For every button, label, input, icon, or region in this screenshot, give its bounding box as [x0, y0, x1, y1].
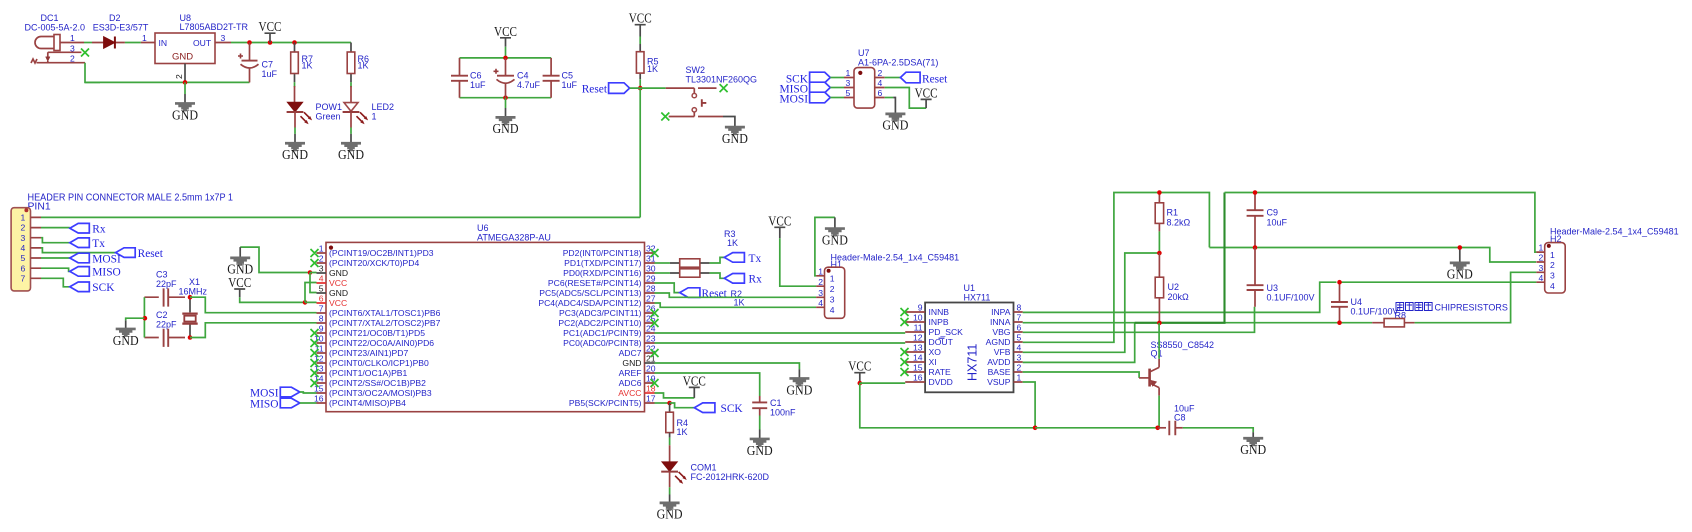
svg-text:100nF: 100nF	[770, 408, 796, 418]
svg-text:1: 1	[1017, 373, 1022, 383]
right pin names	[538, 248, 641, 408]
svg-text:PD2(INT0/PCINT18): PD2(INT0/PCINT18)	[563, 248, 642, 258]
svg-text:GND: GND	[786, 382, 812, 397]
svg-text:10uF: 10uF	[1267, 218, 1288, 228]
svg-text:X1: X1	[189, 277, 200, 287]
svg-text:1: 1	[372, 112, 377, 122]
wire U7.6 to GND	[885, 97, 894, 99]
svg-text:VCC: VCC	[848, 359, 871, 374]
wire MCU pin29 to Reset flag	[655, 283, 680, 293]
svg-text:20: 20	[646, 364, 656, 374]
wire R8 to H2.3	[1415, 272, 1537, 322]
wire U8 OUT to VCC rail	[231, 42, 351, 44]
junction X1 bottom	[188, 335, 193, 340]
svg-text:IN: IN	[159, 38, 168, 48]
power VCC (left of H1)	[768, 213, 791, 238]
connector H2 Header-Male-2.54_1x4_C59481	[1536, 227, 1678, 294]
wire MCU pin23 to U1.12	[655, 342, 906, 344]
svg-text:INNA: INNA	[990, 317, 1011, 327]
svg-text:3: 3	[221, 33, 226, 43]
svg-text:CHIPRESISTORS: CHIPRESISTORS	[1435, 303, 1508, 313]
wire U1.8 INPA to U4/H2.4	[1023, 282, 1337, 312]
wire cap top rail	[460, 57, 552, 59]
svg-text:GND: GND	[657, 507, 683, 522]
svg-text:8: 8	[1017, 303, 1022, 313]
svg-text:C2: C2	[156, 310, 168, 320]
wire U1.1 VSUP down to rail	[1023, 382, 1035, 428]
junction U4 bottom / INNA wire	[1337, 320, 1342, 325]
junction U4 top / INPA wire	[1337, 280, 1342, 285]
net label MOSI	[70, 253, 121, 265]
right pin numbers	[1017, 303, 1022, 383]
right pin numbers	[646, 244, 656, 404]
wire VCC rail to R6	[350, 42, 352, 44]
junction AGND/GND symbol	[1458, 245, 1463, 250]
svg-text:(PCINT20/XCK/T0)PD4: (PCINT20/XCK/T0)PD4	[329, 258, 419, 268]
wire MCU pin24 to U1.11	[655, 332, 906, 334]
junction C9 top	[1253, 190, 1258, 195]
net label Reset (PIN1.4)	[116, 248, 164, 260]
svg-text:16: 16	[314, 394, 324, 404]
svg-text:SW2: SW2	[686, 65, 706, 75]
left pin stubs normal	[317, 253, 327, 403]
ground GND (left of crystal)	[113, 320, 139, 347]
ground GND (below POW1)	[282, 134, 308, 162]
net label Reset (flag, at R5 node)	[582, 83, 630, 96]
svg-text:Rx: Rx	[749, 274, 763, 286]
svg-text:3: 3	[830, 295, 835, 305]
capacitor C2 22pF	[144, 310, 185, 347]
capacitor C6 1uF	[451, 58, 486, 98]
no-connect X marks MCU left pins 1,2,9,10,11,12,13,14	[311, 249, 319, 387]
ground GND (right of C8)	[1240, 437, 1266, 457]
junction MCU VCC pins wire	[303, 300, 308, 305]
MCU U6 ATMEGA328P-AU	[314, 223, 656, 412]
net label Tx	[724, 253, 761, 265]
svg-text:0.1UF/100V: 0.1UF/100V	[1267, 293, 1315, 303]
svg-text:2: 2	[1539, 253, 1544, 263]
svg-text:2: 2	[319, 254, 324, 264]
svg-text:VCC: VCC	[494, 24, 517, 39]
net label SCK (MCU pin17)	[694, 403, 743, 415]
svg-text:C5: C5	[562, 71, 574, 81]
svg-text:2: 2	[21, 223, 26, 233]
svg-text:Header-Male-2.54_1x4_C59481: Header-Male-2.54_1x4_C59481	[831, 253, 960, 263]
svg-text:6: 6	[21, 263, 26, 273]
wire COM1 to GND	[669, 487, 671, 494]
svg-text:29: 29	[646, 274, 656, 284]
svg-text:(PCINT6/XTAL1/TOSC1)PB6: (PCINT6/XTAL1/TOSC1)PB6	[329, 308, 441, 318]
wire U4 top to H2.4	[1340, 281, 1537, 283]
svg-text:MOSI: MOSI	[92, 253, 121, 265]
svg-text:U7: U7	[858, 48, 870, 58]
wire VCC to U1.16 DVDD	[860, 382, 905, 384]
svg-text:PB5(SCK/PCINT5): PB5(SCK/PCINT5)	[569, 398, 642, 408]
svg-text:2: 2	[818, 277, 823, 287]
svg-text:3: 3	[1017, 353, 1022, 363]
svg-text:VFB: VFB	[994, 347, 1011, 357]
svg-text:9: 9	[319, 324, 324, 334]
wire AVDD overlap (dark) to E+ riser	[1135, 192, 1225, 322]
svg-text:COM1: COM1	[691, 463, 717, 473]
svg-text:U6: U6	[477, 223, 489, 233]
connector DC1 DC-005-5A-2.0 (DC barrel jack)	[25, 13, 86, 64]
svg-text:RATE: RATE	[929, 367, 952, 377]
svg-text:24: 24	[646, 324, 656, 334]
svg-text:18: 18	[646, 384, 656, 394]
wire C8 to GND	[1183, 428, 1253, 432]
wire DC1.2 down to GND rail	[85, 63, 100, 83]
wire E+ top rail to H2.1	[1225, 193, 1537, 253]
capacitor C9 10uF	[1247, 193, 1288, 248]
svg-text:5: 5	[846, 88, 851, 98]
wire D2 to U8 IN	[125, 42, 141, 44]
svg-text:1K: 1K	[647, 64, 658, 74]
svg-text:U2: U2	[1168, 282, 1180, 292]
svg-text:3: 3	[818, 288, 823, 298]
svg-text:22pF: 22pF	[156, 279, 177, 289]
resistor R5 1K	[636, 44, 658, 79]
svg-text:7: 7	[319, 304, 324, 314]
wire junction to SCK flag	[670, 403, 695, 408]
svg-text:(PCINT21/OC0B/T1)PD5: (PCINT21/OC0B/T1)PD5	[329, 328, 425, 338]
left pin numbers	[314, 244, 324, 404]
svg-text:C6: C6	[470, 71, 482, 81]
svg-text:LED2: LED2	[372, 102, 395, 112]
svg-text:15: 15	[913, 363, 923, 373]
svg-text:AVDD: AVDD	[987, 357, 1010, 367]
svg-text:2: 2	[830, 284, 835, 294]
svg-text:VCC: VCC	[629, 11, 652, 26]
wire R5 to Reset node	[639, 79, 641, 88]
wire U8 pin2 to GND symbol	[184, 82, 186, 94]
svg-text:GND: GND	[1447, 267, 1473, 282]
svg-text:GND: GND	[722, 131, 748, 146]
power VCC (right of U7)	[915, 85, 938, 108]
svg-text:HEADER PIN CONNECTOR MALE 2.5m: HEADER PIN CONNECTOR MALE 2.5mm 1x7P 1	[28, 193, 234, 204]
svg-text:13: 13	[913, 343, 923, 353]
ground GND (below U8)	[172, 94, 198, 122]
wire C4 bottom to GND	[505, 98, 507, 108]
svg-text:6: 6	[878, 88, 883, 98]
wire PIN1.1 long wire to Reset node vertical	[41, 216, 640, 218]
svg-text:DVDD: DVDD	[929, 377, 953, 387]
svg-text:16: 16	[913, 373, 923, 383]
svg-text:(PCINT23/AIN1)PD7: (PCINT23/AIN1)PD7	[329, 348, 408, 358]
svg-text:22pF: 22pF	[156, 320, 177, 330]
wire X1 top to MCU pin7	[190, 297, 317, 313]
svg-text:5: 5	[1017, 333, 1022, 343]
svg-text:ES3D-E3/57T: ES3D-E3/57T	[93, 23, 149, 33]
svg-text:0.1UF/100V: 0.1UF/100V	[1351, 307, 1399, 317]
net label SCK	[70, 282, 115, 294]
svg-text:PD0(RXD/PCINT16): PD0(RXD/PCINT16)	[563, 268, 641, 278]
svg-text:Rx: Rx	[92, 224, 106, 236]
svg-text:1: 1	[142, 33, 147, 43]
junction X1 top	[188, 295, 193, 300]
svg-text:C3: C3	[156, 270, 168, 280]
svg-text:4: 4	[21, 243, 26, 253]
svg-text:Tx: Tx	[92, 238, 105, 250]
wire R7 to POW1	[294, 82, 296, 87]
wire PIN1.2 to Rx flag	[41, 227, 70, 229]
svg-text:VCC: VCC	[768, 213, 791, 228]
wire R4 to COM1	[669, 438, 671, 446]
resistor (pin30, lower of R3 pair)	[655, 269, 725, 279]
svg-text:XI: XI	[929, 357, 937, 367]
svg-text:27: 27	[646, 294, 656, 304]
svg-text:1K: 1K	[358, 61, 369, 71]
power VCC (AVCC)	[683, 373, 706, 398]
svg-text:TL3301NF260QG: TL3301NF260QG	[686, 75, 758, 85]
svg-text:PD_SCK: PD_SCK	[929, 327, 964, 337]
left pin names	[329, 248, 441, 408]
wire cap bottom rail	[460, 97, 552, 99]
svg-text:3: 3	[846, 78, 851, 88]
wire PIN1.6 to MISO flag	[41, 268, 70, 271]
svg-text:28: 28	[646, 284, 656, 294]
wire PIN1.5 to MOSI flag	[41, 257, 70, 259]
svg-text:2: 2	[174, 74, 184, 79]
wire U1.2 BASE to Q1	[1023, 372, 1139, 378]
svg-text:PC4(ADC4/SDA/PCINT12): PC4(ADC4/SDA/PCINT12)	[538, 298, 641, 308]
svg-text:4.7uF: 4.7uF	[517, 80, 541, 90]
svg-text:7: 7	[1017, 313, 1022, 323]
net label MOSI (MCU pin15)	[250, 387, 316, 399]
svg-text:3: 3	[1550, 271, 1555, 281]
svg-text:GND: GND	[747, 443, 773, 458]
wire Reset node to SW2	[630, 87, 666, 89]
connector H1 Header-Male-2.54_1x4_C59481	[816, 253, 959, 319]
svg-text:GND: GND	[172, 107, 198, 122]
resistor R1 8.2kΩ	[1155, 193, 1190, 254]
svg-text:Tx: Tx	[749, 253, 762, 265]
no-connect X on SW2 bottom-left pin	[661, 113, 669, 121]
svg-text:Reset: Reset	[582, 84, 608, 96]
ground GND (below LED2)	[338, 134, 364, 162]
svg-text:3: 3	[21, 233, 26, 243]
svg-text:21: 21	[646, 354, 656, 364]
svg-text:ADC7: ADC7	[619, 348, 642, 358]
svg-text:(PCINT1/OC1A)PB1: (PCINT1/OC1A)PB1	[329, 368, 408, 378]
no-connect X on DC1 pin 3	[81, 49, 89, 57]
diode D2 ES3D-E3/57T	[92, 13, 149, 49]
wire U1.7 INNA	[1023, 322, 1372, 324]
svg-text:4: 4	[319, 274, 324, 284]
switch SW2 TL3301NF260QG	[666, 65, 757, 117]
capacitor C5 1uF	[543, 58, 578, 98]
junction C4 bottom	[503, 95, 508, 100]
wire U1.4 VFB up to divider	[1023, 253, 1160, 352]
wire to GND (crystal)	[126, 318, 145, 320]
wire VCC to H1.2	[780, 238, 816, 286]
svg-text:1uF: 1uF	[262, 69, 278, 79]
svg-text:VSUP: VSUP	[987, 377, 1011, 387]
no-connect X marks MCU right pins 32,26,25,22,19	[651, 249, 659, 387]
wire MCU pin20 AREF to C1	[655, 373, 760, 396]
svg-text:1: 1	[319, 244, 324, 254]
svg-text:HX711: HX711	[966, 344, 980, 381]
svg-text:C7: C7	[262, 60, 274, 70]
wire PIN1.3 to Tx flag	[41, 238, 70, 243]
power VCC (above C4)	[494, 24, 517, 47]
junction R7 top	[292, 40, 297, 45]
svg-text:(PCINT19/OC2B/INT1)PD3: (PCINT19/OC2B/INT1)PD3	[329, 248, 434, 258]
svg-text:Reset: Reset	[922, 74, 948, 86]
svg-text:AREF: AREF	[619, 368, 642, 378]
net label MISO (MCU pin16)	[250, 398, 316, 410]
left pin stubs VCC	[317, 283, 327, 303]
svg-text:GND: GND	[338, 147, 364, 162]
svg-text:GND: GND	[822, 232, 848, 247]
svg-text:MOSI: MOSI	[780, 94, 809, 106]
capacitor C3 22pF	[144, 270, 185, 307]
svg-text:1: 1	[818, 266, 823, 276]
wire MCU pin17 node	[655, 402, 670, 404]
svg-text:(PCINT3/OC2A/MOSI)PB3: (PCINT3/OC2A/MOSI)PB3	[329, 388, 432, 398]
svg-text:VBG: VBG	[992, 327, 1010, 337]
left pin numbers	[913, 303, 923, 383]
svg-text:U4: U4	[1351, 297, 1363, 307]
svg-text:10: 10	[913, 313, 923, 323]
svg-text:3: 3	[1539, 263, 1544, 273]
resistor U2 20kΩ	[1155, 253, 1189, 323]
svg-text:17: 17	[646, 394, 656, 404]
capacitor C4 4.7uF (polarized)	[494, 58, 541, 98]
left pin stubs GND	[317, 273, 327, 293]
svg-text:1: 1	[1539, 243, 1544, 253]
net label MISO (U7.3)	[780, 82, 844, 95]
svg-text:D2: D2	[109, 13, 121, 23]
junction R1 top / AGND rail	[1157, 190, 1162, 195]
wire U1.3 AVDD up	[1023, 323, 1135, 363]
wire VCC to cap rail	[505, 47, 507, 58]
connector PIN1 (1x7 header)	[11, 193, 233, 291]
net label MISO	[70, 267, 121, 279]
svg-text:OUT: OUT	[193, 38, 212, 48]
junction C9 bottom / U3 top	[1253, 245, 1258, 250]
svg-text:DC-005-5A-2.0: DC-005-5A-2.0	[25, 23, 86, 33]
wire AGND net east	[1209, 248, 1536, 263]
svg-text:GND: GND	[622, 358, 641, 368]
connector U7 A1-6PA-2.5DSA(71)	[844, 48, 938, 108]
svg-text:PC0(ADC0/PCINT8): PC0(ADC0/PCINT8)	[563, 338, 641, 348]
svg-text:XO: XO	[929, 347, 942, 357]
svg-text:16MHz: 16MHz	[179, 287, 208, 297]
svg-text:4: 4	[1017, 343, 1022, 353]
wire C1 to GND	[759, 416, 761, 430]
svg-text:1: 1	[1550, 250, 1555, 260]
left pin names	[929, 307, 964, 387]
crystal X1 16MHz	[179, 277, 208, 338]
junction pin17/R4/SCK	[667, 401, 672, 406]
svg-text:PC3(ADC3/PCINT11): PC3(ADC3/PCINT11)	[559, 308, 642, 318]
capacitor U3 0.1UF/100V	[1247, 248, 1315, 307]
resistor R3 1K (pin31, upper)	[655, 229, 739, 267]
resistor R7 1K	[291, 43, 313, 83]
GND return rail wire	[85, 81, 250, 83]
svg-text:20kΩ: 20kΩ	[1168, 292, 1190, 302]
wire DC1.1 to D2	[84, 42, 92, 44]
resistor R6 1K	[347, 43, 369, 83]
wire LED2 to GND	[350, 128, 352, 134]
net label Reset (U7.2)	[885, 72, 948, 85]
junction Reset node	[638, 86, 643, 91]
svg-text:8: 8	[319, 314, 324, 324]
svg-text:Reset: Reset	[702, 288, 728, 300]
capacitor C8 10uF	[1158, 404, 1195, 436]
right pin names	[986, 307, 1011, 387]
svg-text:C4: C4	[517, 71, 529, 81]
junction Q1 collector / VSUP rail	[1155, 426, 1160, 431]
transistor Q1 SS8550_C8542	[1139, 323, 1214, 428]
wire Reset node down to PIN1 wire	[639, 88, 641, 217]
svg-text:C9: C9	[1267, 208, 1279, 218]
svg-text:1uF: 1uF	[562, 80, 578, 90]
capacitor C1 100nF	[752, 396, 796, 418]
ground GND (below C4)	[493, 108, 519, 136]
wire VCC junction to MCU pin4/pin6	[305, 283, 317, 303]
wire VSUP rail to Q1 collector node	[1035, 427, 1158, 429]
capacitor U4 0.1UF/100V	[1331, 282, 1399, 322]
junction U8 pin2 / GND	[183, 80, 188, 85]
svg-text:GND: GND	[1240, 442, 1266, 457]
junction MCU GND pins wire	[308, 270, 313, 275]
resistor R4 1K	[666, 403, 688, 438]
wire VCC to R5	[639, 37, 641, 45]
svg-text:4: 4	[830, 305, 835, 315]
svg-text:SCK: SCK	[92, 282, 115, 294]
svg-text:(PCINT22/OC0A/AIN0)PD6: (PCINT22/OC0A/AIN0)PD6	[329, 338, 434, 348]
junction VCC stub	[268, 40, 273, 45]
svg-text:31: 31	[646, 254, 656, 264]
svg-text:PC1(ADC1/PCINT9): PC1(ADC1/PCINT9)	[563, 328, 641, 338]
wire U7.4 to VCC	[885, 88, 926, 109]
svg-text:DC1: DC1	[41, 13, 59, 23]
svg-text:GND: GND	[329, 268, 348, 278]
wire SW2 bottom to GND	[723, 117, 735, 127]
junction U2 bottom / AVDD node	[1157, 321, 1162, 326]
svg-text:ATMEGA328P-AU: ATMEGA328P-AU	[477, 233, 551, 243]
svg-text:2: 2	[1017, 363, 1022, 373]
svg-text:1: 1	[21, 213, 26, 223]
svg-text:FC-2012HRK-620D: FC-2012HRK-620D	[691, 472, 770, 482]
junction R1/U2 VFB node	[1157, 251, 1162, 256]
svg-text:6: 6	[319, 294, 324, 304]
svg-text:3: 3	[319, 264, 324, 274]
svg-text:9: 9	[918, 303, 923, 313]
svg-text:SCK: SCK	[721, 403, 744, 415]
right pin stub AVCC	[645, 392, 655, 394]
svg-text:U1: U1	[964, 283, 976, 293]
regulator U8 L7805ABD2T-TR	[141, 13, 249, 83]
svg-text:(PCINT2/SS#/OC1B)PB2: (PCINT2/SS#/OC1B)PB2	[329, 378, 426, 388]
wire crystal left rail	[143, 297, 145, 337]
power VCC (left of U1 DVDD)	[848, 359, 871, 383]
power VCC (above R5)	[629, 11, 652, 37]
svg-text:5: 5	[319, 284, 324, 294]
svg-text:U3: U3	[1267, 283, 1279, 293]
svg-text:1: 1	[846, 68, 851, 78]
svg-text:AVCC: AVCC	[618, 388, 641, 398]
ground GND (above H1)	[822, 217, 848, 247]
svg-text:GND: GND	[493, 121, 519, 136]
svg-text:8.2kΩ: 8.2kΩ	[1167, 218, 1191, 228]
svg-text:(PCINT0/CLKO/ICP1)PB0: (PCINT0/CLKO/ICP1)PB0	[329, 358, 429, 368]
svg-text:A1-6PA-2.5DSA(71): A1-6PA-2.5DSA(71)	[858, 58, 938, 68]
svg-text:VCC: VCC	[915, 85, 938, 100]
LED LED2	[343, 86, 394, 128]
